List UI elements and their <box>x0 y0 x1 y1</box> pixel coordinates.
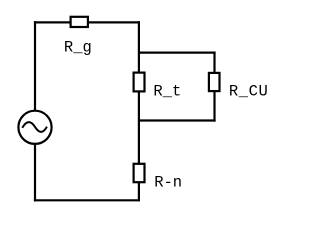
resistor R_t <box>134 73 145 92</box>
svg-text:R-n: R-n <box>154 173 182 191</box>
AC source V1 (sine voltage source) <box>18 111 51 144</box>
wire branch bottom horizontal (node B) <box>139 119 216 121</box>
wire bottom horizontal <box>34 199 140 201</box>
wire branch top horizontal (node A to R_CU branch) <box>139 51 216 53</box>
resistor R_g <box>71 17 88 27</box>
resistor R-n <box>134 164 145 182</box>
wire left vertical lower (source to bottom corner) <box>34 144 36 201</box>
svg-text:R_t: R_t <box>153 83 181 101</box>
wire top horizontal (source top to node A) <box>34 21 140 23</box>
svg-text:R_g: R_g <box>64 38 92 56</box>
wire left vertical upper (top corner to source) <box>34 21 36 110</box>
svg-text:R_CU: R_CU <box>229 82 268 100</box>
wire middle vertical (node A down through R_t and R-n) <box>138 21 140 201</box>
wire right vertical (R_CU branch) <box>213 52 215 122</box>
resistor R_CU <box>209 73 220 91</box>
sine symbol inside source <box>22 122 47 132</box>
